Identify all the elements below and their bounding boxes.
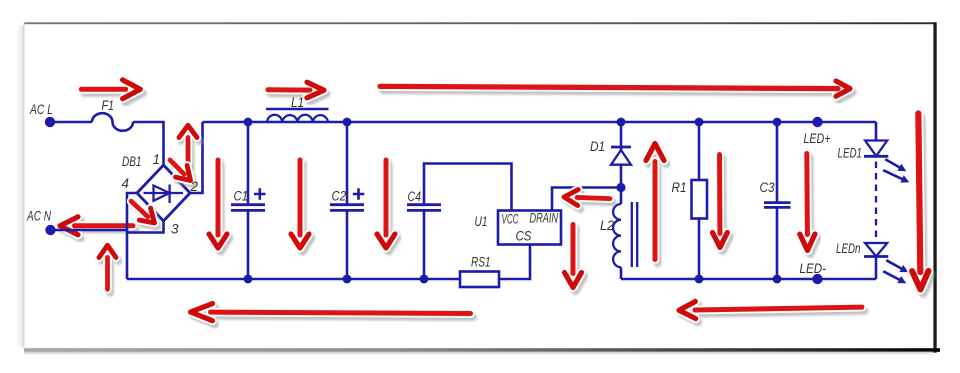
flow arrow: into DRAIN (leftward) — [566, 193, 613, 211]
flow arrow: down C2-C4 loop — [380, 164, 398, 252]
D1 cathode bar — [611, 146, 631, 149]
svg-text:CS: CS — [516, 229, 532, 244]
DB1 internal diode cathode bar — [168, 185, 170, 204]
fuse F1 — [92, 113, 133, 131]
svg-text:C4: C4 — [408, 189, 422, 204]
wire D1 anode to switch node — [620, 165, 623, 188]
svg-text:AC N: AC N — [26, 209, 51, 224]
C1 polarity plus sign — [254, 188, 266, 199]
junction node (248,279) — [244, 275, 253, 284]
svg-text:R1: R1 — [672, 180, 687, 195]
capacitor C1 branch lower — [247, 210, 250, 279]
svg-text:3: 3 — [171, 222, 179, 237]
junction node (777,122) — [773, 118, 782, 127]
flow arrow: down bridge-C1 loop — [212, 164, 230, 252]
resistor R1 branch lower — [698, 219, 701, 280]
junction node (621,122) — [617, 118, 626, 127]
capacitor C4 branch lower — [423, 210, 426, 279]
LED1 triangle — [865, 141, 887, 157]
flow arrow: bottom rail right (leftward) — [682, 302, 865, 322]
node AC N terminal — [45, 225, 55, 235]
svg-text:LED-: LED- — [800, 261, 827, 276]
flow arrow: up into AC N wire — [102, 249, 119, 293]
flow arrow: bridge 1 to 2 diagonal — [167, 158, 199, 190]
svg-text:2: 2 — [190, 179, 199, 194]
bridge rectifier DB1 diamond — [137, 165, 190, 221]
junction node (699,279) — [695, 275, 704, 284]
svg-text:LEDn: LEDn — [836, 241, 861, 256]
svg-text:D1: D1 — [590, 139, 605, 154]
svg-text:4: 4 — [122, 176, 130, 191]
wire F1 to bridge pin 1 — [133, 122, 164, 165]
inductor L1 core bar — [266, 108, 329, 111]
wire bridge pin 2 to top rail — [190, 122, 203, 193]
wire RS1 to CS pin of U1 — [499, 245, 530, 279]
wire C4 top to U1 VCC pin — [424, 164, 512, 211]
D1 triangle — [611, 150, 631, 165]
svg-text:C1: C1 — [234, 189, 249, 204]
capacitor C2 plates — [330, 205, 364, 211]
wire bridge pin 3 jog — [128, 221, 164, 233]
capacitor C3 branch lower — [776, 207, 779, 279]
svg-text:C3: C3 — [760, 180, 775, 195]
capacitor C2 branch upper — [346, 122, 349, 204]
wire bottom rail left (DC-) — [127, 278, 460, 281]
flow arrow: down C1-C2 loop — [294, 164, 312, 252]
flow arrow: up through L2/D1 — [649, 147, 667, 263]
C2 polarity plus sign — [353, 188, 365, 199]
node switch junction dot — [616, 183, 625, 192]
flow arrow: down through C3 loop — [802, 157, 818, 254]
LED1 cathode bar — [864, 155, 888, 158]
svg-text:DRAIN: DRAIN — [530, 211, 559, 226]
LEDn cathode bar — [864, 255, 888, 258]
resistor R1 body — [692, 180, 708, 219]
capacitor C1 branch upper — [247, 122, 250, 204]
svg-text:U1: U1 — [475, 214, 488, 229]
wire bridge pin 4 stub down to AC N and bottom corner — [127, 193, 137, 279]
flow arrow: bottom rail left (leftward) — [193, 307, 473, 326]
inductor L2 core bars — [632, 202, 637, 267]
flow arrow: down through R1 loop — [715, 158, 730, 251]
wire AC L to fuse — [50, 121, 92, 124]
junction node (347,279) — [343, 275, 352, 284]
svg-text:AC L: AC L — [29, 102, 53, 117]
flow arrow: down through LED string — [913, 117, 932, 293]
inductor L2 top lead — [620, 188, 623, 205]
junction node (248,122) — [244, 118, 253, 127]
node LED+ terminal — [812, 117, 822, 127]
node AC L terminal — [45, 117, 55, 127]
DB1 internal diode line — [144, 192, 184, 194]
svg-text:RS1: RS1 — [471, 255, 491, 270]
wire U1 DRAIN pin to switch node — [552, 188, 621, 211]
wire AC N to bridge pin 4 — [51, 229, 128, 232]
flow arrow: bridge pin2 up to rail — [182, 129, 200, 167]
flow arrow: through F1 (rightward) — [84, 84, 143, 103]
svg-text:LED1: LED1 — [838, 146, 863, 161]
resistor RS1 — [460, 272, 499, 288]
capacitor C3 plates — [764, 203, 791, 208]
node LED- terminal — [812, 274, 822, 284]
svg-text:C2: C2 — [332, 189, 347, 204]
svg-text:DB1: DB1 — [122, 154, 142, 169]
svg-text:L2: L2 — [600, 218, 614, 233]
inductor L1 coil — [267, 115, 328, 122]
capacitor C3 branch upper — [776, 122, 779, 203]
wire LEDn cathode to bottom rail — [875, 257, 878, 280]
flow arrow: into AC N (leftward) — [63, 221, 136, 239]
dashed wire LED1 to LEDn — [875, 162, 877, 242]
flow arrow: top rail long (rightward) — [383, 83, 853, 100]
DB1 internal diode triangle — [154, 186, 170, 201]
wire LED+ drop to LED1 — [875, 122, 878, 141]
svg-text:VCC: VCC — [502, 212, 519, 227]
inductor L2 bottom lead to bottom rail — [620, 267, 623, 279]
LEDn emission arrows — [886, 260, 903, 269]
svg-text:F1: F1 — [102, 98, 115, 113]
wire top rail (DC+) — [203, 121, 877, 124]
svg-text:L1: L1 — [291, 95, 304, 110]
LEDn triangle — [865, 243, 887, 256]
flow arrow: through L1 (rightward) — [271, 86, 327, 102]
flow arrow: down through U1/CS — [567, 228, 584, 291]
flow arrow: bridge 4 to 3 diagonal — [128, 199, 163, 233]
junction node (777,279) — [773, 275, 782, 284]
wire bottom rail right (LED return) — [621, 278, 876, 281]
LED1 emission arrows — [885, 159, 901, 168]
diode D1 branch from top rail — [620, 122, 623, 150]
op-amp / controller U1 body — [498, 211, 561, 245]
capacitor C4 plates — [407, 205, 441, 211]
inductor L2 coil — [613, 204, 621, 267]
capacitor C1 plates — [231, 205, 265, 211]
resistor R1 branch upper — [698, 122, 701, 180]
junction node (347,122) — [343, 118, 352, 127]
svg-text:1: 1 — [153, 152, 161, 167]
junction node (424,279) — [420, 275, 429, 284]
svg-text:LED+: LED+ — [804, 131, 831, 146]
junction node (699,122) — [695, 118, 704, 127]
capacitor C2 branch lower — [346, 210, 349, 279]
